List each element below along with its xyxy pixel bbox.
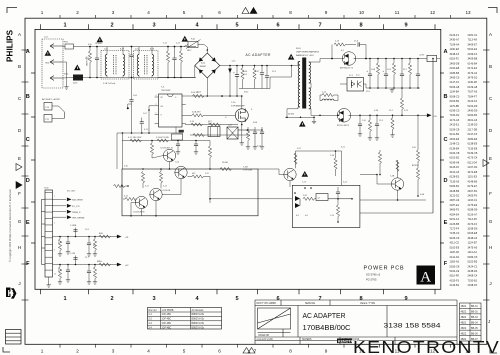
- snubber R11/C11: [331, 45, 333, 59]
- svg-text:1: 1: [63, 296, 66, 302]
- svg-text:4B17: 4B17: [187, 50, 191, 52]
- svg-text:3472-E8: 3472-E8: [468, 170, 478, 174]
- Q9: [135, 196, 147, 208]
- svg-text:4R7: 4R7: [192, 173, 195, 175]
- svg-text:21-4: 21-4: [272, 71, 276, 73]
- svg-text:VARISTOR: VARISTOR: [86, 56, 89, 66]
- svg-text:2117-D8: 2117-D8: [468, 127, 478, 131]
- svg-text:3168-D6: 3168-D6: [468, 227, 478, 231]
- svg-text:250V: 250V: [73, 83, 78, 85]
- varistor RV1: [89, 47, 91, 52]
- svg-text:2187-E1: 2187-E1: [450, 203, 460, 207]
- svg-text:21-5: 21-5: [244, 74, 248, 76]
- svg-text:47k: 47k: [93, 245, 96, 247]
- svg-text:G: G: [18, 219, 22, 224]
- svg-text:6129-A8: 6129-A8: [468, 85, 478, 89]
- svg-text:10: 10: [359, 10, 365, 15]
- svg-text:9106-C9: 9106-C9: [450, 236, 460, 240]
- svg-text:3-22: 3-22: [297, 148, 301, 150]
- svg-text:2141-D1: 2141-D1: [450, 255, 460, 259]
- svg-text:2: 2: [156, 104, 157, 106]
- svg-text:7113-F5: 7113-F5: [468, 217, 478, 221]
- gnd sym at source: [241, 135, 243, 141]
- svg-text:7-4B: 7-4B: [390, 176, 395, 178]
- svg-text:4-7-1 3B0 1/2W: 4-7-1 3B0 1/2W: [128, 137, 141, 139]
- svg-text:S1B-TERM: S1B-TERM: [72, 200, 83, 202]
- svg-text:3: 3: [152, 22, 155, 28]
- svg-text:2468-C4: 2468-C4: [468, 274, 478, 278]
- svg-text:1-16: 1-16: [58, 270, 62, 272]
- svg-text:2167-D2: 2167-D2: [468, 165, 478, 169]
- drain wire: [241, 96, 243, 109]
- lower right busses: [360, 199, 426, 201]
- svg-text:8: 8: [359, 22, 362, 28]
- Q8: [150, 188, 162, 200]
- svg-text:2405-F9: 2405-F9: [468, 194, 478, 198]
- svg-text:4-7: 4-7: [318, 198, 321, 200]
- svg-text:1149-F8: 1149-F8: [468, 80, 478, 84]
- svg-text:4153-F3: 4153-F3: [450, 278, 460, 282]
- svg-text:B-18: B-18: [150, 49, 154, 51]
- svg-text:5: 5: [183, 10, 186, 15]
- C32: [67, 237, 69, 243]
- svg-text:2146-B1: 2146-B1: [450, 283, 460, 287]
- svg-text:3-10: 3-10: [124, 166, 128, 168]
- pot core T2: [227, 127, 238, 139]
- svg-text:BT1B-2.4B/TF: BT1B-2.4B/TF: [337, 125, 350, 127]
- svg-text:B: B: [26, 94, 30, 100]
- R3: [180, 47, 182, 52]
- svg-text:7-1B: 7-1B: [243, 166, 248, 168]
- svg-text:7184-F7: 7184-F7: [468, 94, 478, 98]
- svg-text:3401-A3: 3401-A3: [468, 118, 478, 122]
- clamp return: [239, 88, 270, 90]
- svg-text:xxxA xxIV xxxW: xxxA xxIV xxxW: [257, 338, 274, 341]
- svg-text:5162-E9: 5162-E9: [450, 245, 460, 249]
- revision table: [460, 303, 482, 341]
- svg-text:3138 158 5584: 3138 158 5584: [384, 323, 441, 330]
- svg-text:21-0: 21-0: [366, 91, 370, 93]
- svg-text:9126-A7: 9126-A7: [468, 212, 478, 216]
- svg-text:5-02: 5-02: [208, 123, 212, 125]
- aux wires: [52, 105, 59, 107]
- svg-text:5-03: 5-03: [228, 125, 232, 127]
- svg-text:3-20: 3-20: [412, 147, 416, 149]
- svg-text:4111-C5: 4111-C5: [450, 241, 460, 245]
- svg-text:3448-A2: 3448-A2: [468, 236, 478, 240]
- clamp R15: [242, 66, 244, 69]
- svg-text:© Copyright 2003 Philips Consu: © Copyright 2003 Philips Consumer Electr…: [8, 188, 12, 262]
- svg-text:9: 9: [325, 349, 328, 354]
- svg-text:11: 11: [395, 10, 400, 15]
- svg-text:B0B27d-03x: B0B27d-03x: [192, 323, 205, 325]
- svg-text:4-7-1: 4-7-1: [144, 129, 148, 131]
- svg-text:AC ADAPTER: AC ADAPTER: [246, 53, 272, 57]
- earth wire: [63, 61, 67, 63]
- bulk cap C5: [236, 66, 238, 75]
- C14: [141, 118, 143, 122]
- warning before NTC: [182, 36, 189, 42]
- svg-text:2424-C1: 2424-C1: [468, 264, 478, 268]
- svg-text:3-13: 3-13: [124, 196, 128, 198]
- sense C9: [254, 127, 256, 132]
- svg-text:6: 6: [218, 349, 221, 354]
- svg-text:3: 3: [112, 349, 115, 354]
- svg-text:1-09: 1-09: [387, 69, 391, 71]
- +5V rail: [351, 114, 428, 116]
- svg-text:2139-D3: 2139-D3: [468, 123, 478, 127]
- Kenotron mini-mark: [337, 339, 352, 344]
- source sense network: [241, 122, 243, 135]
- R36: [209, 141, 211, 147]
- svg-text:B: B: [18, 64, 21, 69]
- filter caps on 19V rail: [369, 59, 371, 75]
- svg-text:6-3: 6-3: [296, 215, 299, 217]
- svg-text:9188-D9: 9188-D9: [468, 208, 478, 212]
- svg-text:A: A: [443, 49, 447, 55]
- svg-text:4148-B6: 4148-B6: [468, 179, 478, 183]
- R33: [125, 197, 136, 200]
- svg-text:2168-F5: 2168-F5: [468, 283, 478, 287]
- svg-text:E: E: [26, 220, 30, 226]
- inner zone letters: [26, 49, 448, 267]
- svg-text:6174-E2: 6174-E2: [468, 66, 478, 70]
- svg-text:9: 9: [325, 10, 328, 15]
- svg-text:7133-E8: 7133-E8: [468, 146, 478, 150]
- svg-text:1: 1: [54, 196, 55, 198]
- +5V output wire: [53, 264, 118, 266]
- svg-text:3180-E5: 3180-E5: [468, 137, 478, 141]
- svg-text:4: 4: [147, 349, 150, 354]
- svg-text:2125-B5: 2125-B5: [450, 222, 460, 226]
- svg-text:9126-F6: 9126-F6: [450, 165, 460, 169]
- svg-text:2175-E9: 2175-E9: [468, 203, 478, 207]
- svg-text:9199-A8: 9199-A8: [450, 160, 460, 164]
- rectifier D6 dual: [337, 109, 351, 123]
- Q6 collector net: [295, 151, 297, 168]
- R/C across line R2: [167, 47, 169, 52]
- svg-text:7: 7: [318, 296, 321, 302]
- svg-text:2: 2: [76, 10, 79, 15]
- svg-text:K: K: [8, 289, 14, 298]
- svg-text:1N4007: 1N4007: [200, 66, 207, 68]
- +19V output wire: [53, 236, 118, 238]
- svg-text:3448-F3: 3448-F3: [450, 52, 460, 56]
- svg-text:C: C: [26, 137, 30, 143]
- svg-text:1-07: 1-07: [143, 113, 147, 115]
- svg-text:7166-D2: 7166-D2: [450, 113, 460, 117]
- svg-text:BANDSPLIT +419: BANDSPLIT +419: [296, 54, 314, 57]
- svg-text:BB-02: BB-02: [471, 311, 478, 314]
- svg-text:J: J: [18, 281, 20, 286]
- svg-text:5: 5: [235, 22, 238, 28]
- svg-text:6128-E3: 6128-E3: [450, 175, 460, 179]
- svg-text:9116-F8: 9116-F8: [450, 274, 460, 278]
- signal TERM_S: [53, 211, 67, 213]
- svg-text:F: F: [18, 191, 21, 196]
- aux cap C13: [131, 78, 133, 100]
- svg-text:1-05: 1-05: [232, 61, 236, 63]
- svg-text:2430-A7: 2430-A7: [450, 38, 460, 42]
- R37: [114, 184, 125, 187]
- T1 primary: [298, 62, 300, 108]
- svg-text:1-06: 1-06: [133, 95, 137, 97]
- svg-text:SUPERS: SUPERS: [302, 339, 312, 341]
- AC inlet connector X1: [42, 39, 63, 88]
- svg-text:3176-A2: 3176-A2: [468, 71, 478, 75]
- svg-text:3-24: 3-24: [343, 182, 347, 184]
- svg-text:170B4BB/00C: 170B4BB/00C: [303, 323, 351, 332]
- U1 pins right: [182, 95, 186, 97]
- svg-text:6138-E9: 6138-E9: [468, 142, 478, 146]
- svg-text:7109-A4: 7109-A4: [450, 42, 460, 46]
- svg-text:2148-C3: 2148-C3: [450, 142, 460, 146]
- svg-text:2428-B9: 2428-B9: [450, 189, 460, 193]
- svg-text:3150: 3150: [64, 74, 68, 76]
- svg-text:2465-D8: 2465-D8: [450, 61, 460, 65]
- signal TER_SENSE: [53, 216, 67, 218]
- svg-text:1: 1: [41, 349, 44, 354]
- svg-text:3173-F2: 3173-F2: [468, 222, 478, 226]
- R43: [94, 265, 96, 268]
- svg-text:21-1: 21-1: [403, 69, 407, 71]
- gate resistor R7: [186, 114, 192, 116]
- svg-text:470u: 470u: [244, 92, 248, 94]
- svg-text:STP4NB50FP: STP4NB50FP: [231, 105, 245, 107]
- bias caps: [177, 141, 179, 145]
- svg-text:1-13: 1-13: [302, 182, 306, 184]
- svg-text:4: 4: [147, 10, 150, 15]
- svg-text:4B22: 4B22: [461, 316, 467, 319]
- svg-text:1130-E3: 1130-E3: [450, 47, 460, 51]
- svg-text:3409-E7: 3409-E7: [468, 42, 478, 46]
- svg-text:FG 5765: FG 5765: [366, 277, 377, 281]
- Q10: [163, 149, 175, 161]
- svg-text:2186-B6: 2186-B6: [450, 71, 460, 75]
- svg-text:TER_SENSE: TER_SENSE: [72, 218, 85, 220]
- svg-text:5165-A8: 5165-A8: [450, 85, 460, 89]
- address stripes box: [6, 330, 22, 345]
- svg-text:6111-D4: 6111-D4: [468, 160, 478, 164]
- svg-text:3-17: 3-17: [257, 146, 261, 148]
- svg-text:3-14 4K7 1/4W: 3-14 4K7 1/4W: [156, 137, 169, 139]
- ferrite bead L3: [427, 55, 437, 61]
- C31: [59, 237, 61, 240]
- svg-text:3-11: 3-11: [145, 186, 149, 188]
- snubber block Z1: [208, 127, 220, 137]
- svg-text:2415-E1: 2415-E1: [450, 123, 460, 127]
- svg-text:1133-C1: 1133-C1: [468, 198, 478, 202]
- controller IC U1: [159, 94, 183, 127]
- svg-text:3-15: 3-15: [205, 173, 209, 175]
- svg-text:F: F: [26, 261, 30, 267]
- inner drawing frame: [35, 29, 441, 289]
- svg-text:2-01: 2-01: [104, 49, 108, 51]
- pin2 net: [149, 105, 155, 107]
- svg-text:7113-A9: 7113-A9: [468, 38, 478, 42]
- svg-text:PHILIPS: PHILIPS: [6, 29, 15, 62]
- svg-text:TERM_S: TERM_S: [72, 212, 81, 214]
- svg-text:2194-E8: 2194-E8: [450, 66, 460, 70]
- part location list: [450, 33, 478, 287]
- svg-text:2490-D9: 2490-D9: [468, 109, 478, 113]
- outer column numbers bottom: [41, 349, 471, 354]
- svg-text:8: 8: [359, 296, 362, 302]
- svg-text:F: F: [489, 191, 492, 196]
- svg-text:B: B: [489, 64, 492, 69]
- svg-text:7133-A5: 7133-A5: [450, 179, 460, 183]
- cap C101: [96, 47, 98, 59]
- svg-text:4184-E4: 4184-E4: [450, 212, 460, 216]
- sense C12: [261, 127, 263, 132]
- svg-text:2-06: 2-06: [244, 71, 248, 73]
- svg-text:2: 2: [76, 349, 79, 354]
- wire bus to Q6: [278, 169, 280, 175]
- svg-text:J: J: [488, 319, 490, 324]
- svg-text:9141-B2: 9141-B2: [450, 132, 460, 136]
- cap C3: [174, 47, 176, 59]
- svg-text:9: 9: [54, 250, 55, 252]
- svg-text:AC Remark: AC Remark: [192, 309, 205, 312]
- svg-text:1-10: 1-10: [362, 120, 366, 122]
- svg-text:7-10: 7-10: [231, 102, 236, 104]
- R31 R32: [142, 169, 144, 172]
- svg-text:1126-A5: 1126-A5: [450, 250, 460, 254]
- svg-text:7172-F4: 7172-F4: [450, 227, 460, 231]
- bridge rectifier D1..D4: [195, 53, 220, 78]
- svg-text:7135-C2: 7135-C2: [450, 231, 460, 235]
- NTC R4: [184, 45, 188, 47]
- svg-text:5: 5: [183, 349, 186, 354]
- X2 gnd: [48, 277, 50, 283]
- Q7: [175, 166, 187, 178]
- svg-text:1-12B: 1-12B: [70, 253, 76, 255]
- output connector X2: [45, 190, 53, 277]
- svg-text:Doc.Ver: Doc.Ver: [149, 309, 157, 312]
- C33: [88, 237, 90, 244]
- feedback amp box: [122, 169, 258, 216]
- svg-text:4173-C4: 4173-C4: [468, 156, 478, 160]
- svg-text:1: 1: [41, 10, 44, 15]
- svg-text:BB-04: BB-04: [471, 322, 478, 325]
- R23: [337, 199, 339, 205]
- clamp R16: [254, 66, 256, 69]
- aux socket P10: [44, 103, 52, 111]
- svg-text:SY_CTL: SY_CTL: [72, 206, 81, 208]
- T1 bottom net: [285, 116, 315, 118]
- svg-text:3122-D2: 3122-D2: [450, 194, 460, 198]
- svg-text:3479-D2: 3479-D2: [468, 76, 478, 80]
- svg-text:3475-A5: 3475-A5: [468, 245, 478, 249]
- svg-text:E: E: [444, 220, 448, 226]
- svg-text:13: 13: [465, 10, 471, 15]
- svg-text:2-07: 2-07: [256, 71, 260, 73]
- svg-text:6179-E7: 6179-E7: [468, 184, 478, 188]
- svg-text:C: C: [443, 137, 447, 143]
- aux block Z2: [171, 134, 182, 140]
- svg-text:9: 9: [404, 22, 407, 28]
- R22: [303, 197, 314, 200]
- divider to 5V rail: [401, 88, 403, 96]
- svg-text:3483-F5: 3483-F5: [450, 208, 460, 212]
- signal S19-TERM: [53, 198, 67, 200]
- projection symbol cell: [258, 308, 291, 337]
- svg-text:G: G: [489, 219, 493, 224]
- svg-text:9: 9: [404, 296, 407, 302]
- svg-text:3123-F4: 3123-F4: [468, 99, 478, 103]
- svg-text:2-02: 2-02: [135, 49, 139, 51]
- sense R9: [247, 127, 249, 129]
- outer column numbers top: [41, 10, 471, 15]
- T1 secondary 19V: [309, 62, 311, 83]
- sheet flag A: [417, 266, 436, 285]
- svg-text:5102-D9: 5102-D9: [468, 104, 478, 108]
- svg-text:D: D: [26, 178, 30, 184]
- svg-text:Variant / TYPE: Variant / TYPE: [360, 302, 375, 305]
- svg-text:9160-B2: 9160-B2: [468, 113, 478, 117]
- internal wires: [180, 179, 182, 195]
- svg-text:B0B27d-03x: B0B27d-03x: [192, 327, 205, 329]
- svg-text:2: 2: [110, 296, 113, 302]
- svg-text:6147-F3: 6147-F3: [468, 132, 478, 136]
- svg-text:6-4: 6-4: [305, 215, 308, 217]
- aux socket P11: [44, 115, 52, 123]
- svg-text:+5V: +5V: [125, 265, 129, 267]
- right vertical return: [432, 58, 434, 60]
- svg-text:4B22: 4B22: [461, 305, 467, 308]
- svg-text:7-06 BC847B: 7-06 BC847B: [133, 212, 145, 214]
- svg-text:B0B27d-03x: B0B27d-03x: [192, 314, 205, 316]
- svg-text:1101-E3: 1101-E3: [468, 175, 478, 179]
- upper bias rail: [122, 140, 210, 142]
- svg-text:F: F: [444, 261, 448, 267]
- svg-text:2407-B1: 2407-B1: [468, 189, 478, 193]
- svg-text:1114-A4: 1114-A4: [468, 250, 478, 254]
- svg-text:B3-7L23-0B: B3-7L23-0B: [160, 190, 171, 192]
- caps on 5V rail: [359, 115, 361, 124]
- svg-text:6139-B4: 6139-B4: [450, 146, 460, 150]
- svg-text:GRN/BL: GRN/BL: [95, 43, 102, 45]
- svg-text:2147-F2: 2147-F2: [450, 80, 460, 84]
- svg-text:8: 8: [289, 349, 292, 354]
- svg-text:5102-B5: 5102-B5: [468, 260, 478, 264]
- transformer T1: [288, 54, 295, 60]
- svg-text:3122-A3: 3122-A3: [450, 170, 460, 174]
- R41: [94, 237, 96, 240]
- svg-text:5-1B 2x27mH: 5-1B 2x27mH: [103, 83, 116, 85]
- svg-text:BB-03: BB-03: [471, 316, 478, 319]
- svg-text:3-0B 4R7: 3-0B 4R7: [192, 112, 201, 114]
- svg-text:2403-E6: 2403-E6: [450, 137, 460, 141]
- warning over filter: [97, 37, 104, 43]
- svg-text:3-12: 3-12: [163, 186, 167, 188]
- svg-text:1: 1: [63, 22, 66, 28]
- svg-text:AP111E: AP111E: [412, 164, 419, 167]
- secondary control box: [292, 185, 360, 227]
- DC+ rail: [220, 65, 298, 67]
- svg-text:A: A: [26, 49, 30, 55]
- svg-text:6143-B4: 6143-B4: [468, 61, 478, 65]
- svg-text:E: E: [489, 156, 492, 161]
- feedback divider R20/R21: [417, 115, 419, 150]
- optocoupler IC3: [347, 78, 364, 92]
- svg-text:12: 12: [430, 10, 436, 15]
- svg-text:5186-B1: 5186-B1: [450, 184, 460, 188]
- svg-text:A: A: [420, 270, 431, 286]
- svg-text:1179-B5: 1179-B5: [450, 104, 460, 108]
- error amp Q5: [391, 178, 403, 190]
- svg-text:3-19: 3-19: [404, 110, 408, 112]
